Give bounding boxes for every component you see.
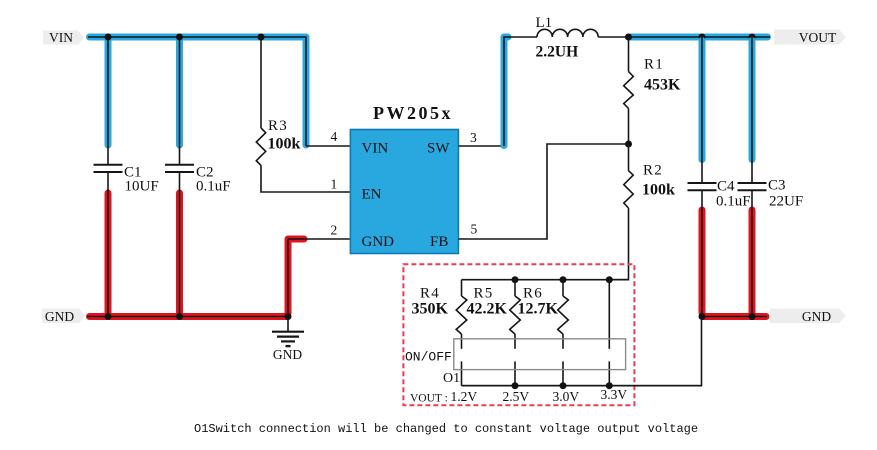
wire C4 branch red <box>699 210 706 313</box>
wire GND pin2 red elbow <box>288 239 304 313</box>
wire C4 top lead <box>701 37 703 183</box>
selector dashed box <box>403 264 634 405</box>
wire VOUT rail blue <box>629 34 768 41</box>
svg-text:1: 1 <box>331 177 338 192</box>
wire C2 top lead <box>179 37 181 164</box>
node VOUT label <box>774 30 846 46</box>
wire GND rail left center line <box>87 316 288 318</box>
wire C1 top lead <box>107 37 109 164</box>
wire C1 branch blue <box>105 41 112 146</box>
wire C4 branch blue <box>699 41 706 160</box>
svg-text:L1: L1 <box>536 15 553 31</box>
junction dot GND-C2 <box>176 313 183 320</box>
svg-text:VIN: VIN <box>362 141 389 157</box>
wire C1 branch red <box>105 193 112 313</box>
svg-text:10UF: 10UF <box>125 179 159 195</box>
junction dot VIN-C1 <box>105 34 112 41</box>
svg-text:453K: 453K <box>644 77 681 94</box>
svg-text:C3: C3 <box>768 178 786 194</box>
wire SW riser center line <box>504 37 537 146</box>
wire VIN rail center line <box>88 37 306 146</box>
wire R4 top lead <box>461 280 463 296</box>
wire C2 bottom lead <box>179 172 181 317</box>
wire FB lead <box>458 144 628 239</box>
resistor R2 <box>624 171 633 208</box>
resistor R1 <box>624 72 634 109</box>
junction dot VIN-R3 <box>258 34 265 41</box>
wire R5 switch stub <box>514 334 516 349</box>
svg-text:R1: R1 <box>644 57 664 73</box>
wire C3 bottom lead <box>751 190 753 316</box>
wire O1 return to GND rail <box>462 317 702 386</box>
wire VOUT rail center line <box>629 36 771 38</box>
wire L1 to VOUT rail <box>598 36 630 38</box>
wire GND rail left red <box>90 313 288 320</box>
svg-text:4: 4 <box>331 129 338 144</box>
svg-text:42.2K: 42.2K <box>467 301 508 318</box>
junction dot GND-C1 <box>105 313 112 320</box>
svg-text:2: 2 <box>331 223 338 238</box>
svg-text:R3: R3 <box>268 118 288 134</box>
svg-text:5: 5 <box>471 222 478 237</box>
wire R5 top lead <box>514 280 516 296</box>
svg-text:EN: EN <box>362 187 382 203</box>
svg-text:GND: GND <box>45 309 74 324</box>
wire C2 branch red <box>176 193 183 313</box>
svg-text:2.5V: 2.5V <box>503 389 530 404</box>
junction dot VIN-C2 <box>176 34 183 41</box>
capacitor C3 <box>738 183 767 190</box>
wire R5 bottom stub <box>514 361 516 385</box>
wire C3 top lead <box>751 37 753 183</box>
svg-text:VOUT :: VOUT : <box>410 393 448 405</box>
wire C2 branch blue <box>176 41 183 146</box>
node GND left label <box>42 309 85 325</box>
wire R6 switch stub <box>562 334 564 349</box>
svg-text:R5: R5 <box>474 286 494 302</box>
wire R1 bottom lead <box>628 109 630 145</box>
wire R3 bottom lead to EN <box>261 165 351 192</box>
svg-text:VOUT: VOUT <box>799 30 837 45</box>
capacitor C4 <box>688 183 717 190</box>
junction dot O1-R6 <box>560 382 567 389</box>
resistor R6 <box>558 296 569 334</box>
svg-text:3.3V: 3.3V <box>601 387 628 402</box>
wire R6 top lead <box>562 280 564 296</box>
wire SW lead <box>458 145 504 147</box>
wire SW riser blue <box>504 37 508 146</box>
wire GND rail right red <box>703 313 767 320</box>
svg-text:R4: R4 <box>420 286 440 302</box>
wire R2 top lead <box>628 144 630 171</box>
wire R4 switch stub <box>461 334 463 349</box>
svg-text:O1Switch connection will be ch: O1Switch connection will be changed to c… <box>194 422 698 436</box>
junction dot bus-col4 <box>606 276 613 283</box>
junction dot VOUT-R1 <box>625 34 632 41</box>
svg-text:1.2V: 1.2V <box>451 389 478 404</box>
wire R3 top lead <box>260 37 262 128</box>
wire C1 bottom lead <box>107 172 109 317</box>
wire VIN rail (thick blue) <box>90 37 307 145</box>
inductor L1 <box>537 29 598 37</box>
wire col4 top lead <box>608 280 610 349</box>
svg-text:100k: 100k <box>268 136 301 153</box>
junction dot FB-R1-R2 <box>625 141 632 148</box>
junction dot bus-R6 <box>560 276 567 283</box>
svg-text:R2: R2 <box>643 163 663 179</box>
capacitor C2 <box>165 165 194 172</box>
svg-text:O1: O1 <box>443 371 460 386</box>
junction dot VOUT-C3 <box>749 34 756 41</box>
resistor R3 <box>256 128 265 165</box>
resistor R5 <box>510 296 521 334</box>
wire O1 bus <box>462 385 702 387</box>
wire GND rail right center line <box>701 316 767 318</box>
junction dot GND-pin2 <box>285 313 292 320</box>
capacitor C1 <box>94 165 123 172</box>
svg-text:3: 3 <box>470 130 477 145</box>
wire R6 bottom stub <box>562 361 564 385</box>
wire R2 bottom lead <box>609 208 628 280</box>
junction dot O1-R5 <box>512 382 519 389</box>
junction dot VOUT-C4 <box>699 34 706 41</box>
svg-text:VIN: VIN <box>49 30 73 45</box>
svg-text:0.1uF: 0.1uF <box>716 194 751 210</box>
wire C4 bottom lead <box>701 190 703 316</box>
node VIN label <box>43 30 84 45</box>
wire R4 bottom stub <box>461 361 463 385</box>
svg-text:0.1uF: 0.1uF <box>196 179 231 195</box>
svg-text:350K: 350K <box>412 301 449 318</box>
junction dot GNDR-C4 <box>699 313 706 320</box>
wire C3 branch blue <box>749 41 756 160</box>
svg-text:3.0V: 3.0V <box>553 389 580 404</box>
svg-text:SW: SW <box>427 141 450 157</box>
svg-text:R6: R6 <box>523 286 543 302</box>
junction dot bus-R5 <box>512 276 519 283</box>
svg-text:100k: 100k <box>642 182 675 199</box>
junction dot O1-col4 <box>606 382 613 389</box>
svg-text:GND: GND <box>273 347 302 362</box>
svg-text:ON/OFF: ON/OFF <box>405 350 452 365</box>
svg-text:12.7K: 12.7K <box>518 301 559 318</box>
wire R1 top lead <box>628 37 630 72</box>
svg-text:FB: FB <box>430 234 448 250</box>
wire pin4 lead <box>306 145 351 147</box>
wire col4 bottom stub <box>608 361 610 385</box>
switch box ON/OFF <box>454 339 626 370</box>
node GND right label <box>770 309 846 325</box>
op-amp U1 PW205x body <box>350 130 458 254</box>
svg-text:PW205x: PW205x <box>373 103 453 123</box>
resistor R4 <box>456 296 467 334</box>
svg-text:GND: GND <box>362 234 395 250</box>
svg-text:22UF: 22UF <box>769 194 803 210</box>
svg-text:C4: C4 <box>717 179 735 195</box>
wire GND pin2 lead <box>288 239 351 331</box>
ground symbol <box>272 332 304 346</box>
svg-text:2.2UH: 2.2UH <box>536 44 579 61</box>
wire C3 branch red <box>749 210 756 313</box>
junction dot GNDR-C3 <box>749 313 756 320</box>
svg-text:GND: GND <box>802 309 831 324</box>
wire FB bus (top bus in box) <box>462 279 629 281</box>
